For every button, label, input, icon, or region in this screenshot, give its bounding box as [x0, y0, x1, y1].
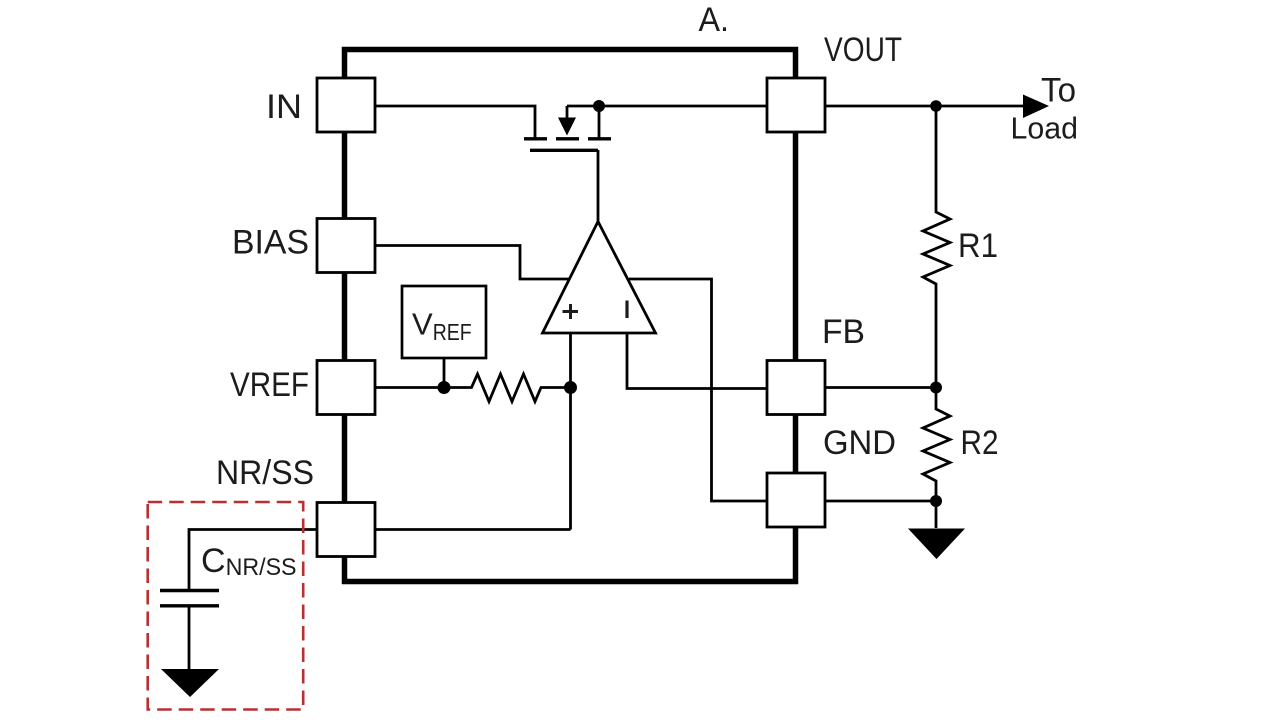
svg-text:GND: GND	[823, 424, 896, 462]
svg-text:Load: Load	[1011, 112, 1079, 146]
svg-text:VREF: VREF	[230, 366, 309, 404]
svg-text:VOUT: VOUT	[824, 31, 902, 69]
svg-text:NR/SS: NR/SS	[216, 454, 314, 492]
svg-text:R1: R1	[958, 227, 998, 265]
svg-text:R2: R2	[961, 424, 999, 462]
svg-text:To: To	[1041, 72, 1076, 110]
svg-text:IN: IN	[266, 88, 302, 126]
svg-text:FB: FB	[822, 313, 865, 351]
svg-text:A.: A.	[699, 1, 730, 39]
svg-text:BIAS: BIAS	[232, 224, 309, 262]
